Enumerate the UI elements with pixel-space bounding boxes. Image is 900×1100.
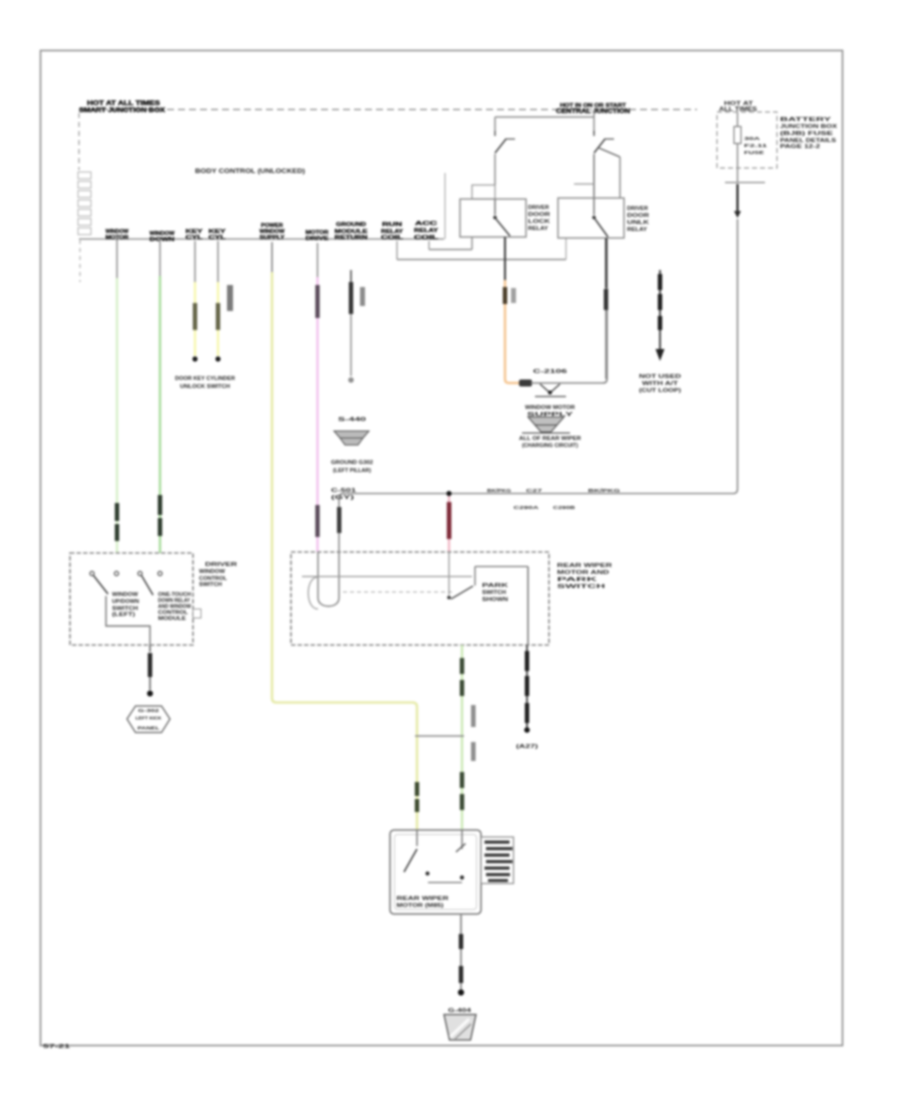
svg-text:BK/PKG: BK/PKG <box>487 488 511 494</box>
svg-text:JUNCTION BOX: JUNCTION BOX <box>780 124 837 130</box>
svg-text:(A27): (A27) <box>516 744 539 750</box>
svg-text:WINDOW MOTOR: WINDOW MOTOR <box>525 405 575 411</box>
svg-text:PANEL: PANEL <box>138 726 160 732</box>
svg-text:LOCK: LOCK <box>528 219 550 225</box>
svg-text:SWITCH: SWITCH <box>199 582 222 588</box>
svg-text:SWITCH: SWITCH <box>482 590 506 596</box>
svg-text:(GY): (GY) <box>331 495 355 501</box>
svg-text:UP/DOWN: UP/DOWN <box>112 599 139 605</box>
svg-text:COIL: COIL <box>381 235 404 241</box>
svg-text:(LEFT): (LEFT) <box>112 612 135 618</box>
svg-text:DRIVER: DRIVER <box>205 562 237 568</box>
svg-text:(CHARGING CIRCUIT): (CHARGING CIRCUIT) <box>522 443 578 449</box>
svg-text:WINDOW: WINDOW <box>199 569 226 575</box>
svg-text:DOWN: DOWN <box>150 237 175 243</box>
svg-text:RELAY: RELAY <box>528 226 548 232</box>
svg-text:DRIVER: DRIVER <box>528 205 549 211</box>
svg-text:F2.11: F2.11 <box>744 143 768 149</box>
svg-text:C27: C27 <box>526 488 543 494</box>
svg-text:PARK: PARK <box>482 583 509 589</box>
svg-text:CENTRAL JUNCTION: CENTRAL JUNCTION <box>556 109 630 115</box>
svg-text:REAR WIPER: REAR WIPER <box>397 896 450 902</box>
svg-text:GROUND: GROUND <box>336 222 366 228</box>
svg-text:ALL OF REAR WIPER: ALL OF REAR WIPER <box>519 436 581 442</box>
svg-text:MODULE: MODULE <box>158 616 187 622</box>
svg-text:PAGE 12-2: PAGE 12-2 <box>780 144 820 150</box>
svg-text:C290B: C290B <box>553 505 576 511</box>
svg-text:WITH A/T: WITH A/T <box>642 381 679 387</box>
svg-text:RELAY: RELAY <box>414 228 438 234</box>
svg-text:MOTOR AND: MOTOR AND <box>557 570 609 576</box>
svg-text:SHOWN: SHOWN <box>482 597 509 603</box>
svg-text:PARK: PARK <box>557 577 597 583</box>
svg-text:FUSE: FUSE <box>744 150 765 156</box>
svg-text:CYL: CYL <box>209 235 227 241</box>
svg-text:CYL: CYL <box>186 235 204 241</box>
svg-text:WINDOW: WINDOW <box>112 592 138 598</box>
svg-text:C-2106: C-2106 <box>533 369 567 375</box>
svg-text:BODY CONTROL (UNLOCKED): BODY CONTROL (UNLOCKED) <box>195 168 305 175</box>
svg-text:LEFT KICK: LEFT KICK <box>136 716 163 722</box>
svg-text:S-440: S-440 <box>338 417 366 423</box>
svg-text:UNLOCK SWITCH: UNLOCK SWITCH <box>180 384 230 390</box>
svg-text:BATTERY: BATTERY <box>780 117 832 123</box>
svg-text:(BJB) FUSE: (BJB) FUSE <box>780 131 834 137</box>
svg-text:BK/PKG: BK/PKG <box>588 488 620 494</box>
svg-text:30A: 30A <box>744 136 761 142</box>
svg-text:C-501: C-501 <box>331 488 356 494</box>
svg-text:RETURN: RETURN <box>335 235 368 241</box>
svg-text:DRIVER: DRIVER <box>627 206 648 212</box>
svg-text:COIL: COIL <box>414 235 439 241</box>
svg-text:DOOR KEY CYLINDER: DOOR KEY CYLINDER <box>175 376 235 382</box>
svg-text:HOT AT ALL TIMES: HOT AT ALL TIMES <box>87 101 160 107</box>
svg-text:(CUT LOOP): (CUT LOOP) <box>639 388 681 394</box>
svg-text:C290A: C290A <box>514 505 540 511</box>
svg-text:UNLK: UNLK <box>627 220 649 226</box>
svg-text:DRIVE: DRIVE <box>306 236 329 242</box>
svg-text:G-404: G-404 <box>448 1008 471 1014</box>
svg-text:REAR WIPER: REAR WIPER <box>557 563 612 569</box>
svg-text:GROUND G302: GROUND G302 <box>331 460 373 466</box>
svg-text:SWITCH: SWITCH <box>557 584 605 590</box>
svg-text:G-302: G-302 <box>138 708 160 714</box>
svg-text:RUN: RUN <box>382 222 402 228</box>
svg-text:RELAY: RELAY <box>627 227 647 233</box>
svg-text:SUPPLY: SUPPLY <box>260 235 285 241</box>
svg-text:MOTOR (M85): MOTOR (M85) <box>397 903 444 909</box>
svg-text:NOT USED: NOT USED <box>639 374 681 380</box>
svg-text:DOOR: DOOR <box>528 212 550 218</box>
svg-text:SMART JUNCTION BOX: SMART JUNCTION BOX <box>79 108 165 114</box>
svg-text:DOOR: DOOR <box>627 213 649 219</box>
svg-text:(LEFT PILLAR): (LEFT PILLAR) <box>333 468 371 474</box>
svg-text:57-21: 57-21 <box>43 1044 70 1050</box>
svg-text:ACC: ACC <box>415 221 437 227</box>
